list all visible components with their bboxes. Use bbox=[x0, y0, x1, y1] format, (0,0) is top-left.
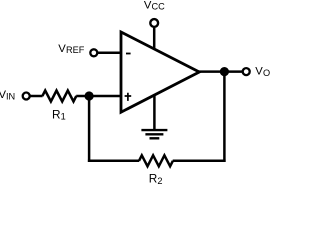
terminal VIN circle bbox=[23, 93, 30, 100]
svg-text:R: R bbox=[52, 107, 61, 121]
terminal VO circle bbox=[243, 68, 250, 75]
resistor R1 bbox=[42, 91, 76, 102]
terminal VCC circle bbox=[150, 19, 158, 27]
wire bottom right segment bbox=[173, 160, 226, 163]
svg-text:REF: REF bbox=[66, 45, 85, 55]
wire feedback right leg bbox=[223, 72, 226, 162]
resistor R2 bbox=[139, 155, 173, 166]
svg-text:CC: CC bbox=[152, 2, 166, 12]
svg-text:1: 1 bbox=[61, 112, 66, 122]
svg-text:R: R bbox=[149, 172, 158, 186]
wire output bbox=[198, 70, 243, 73]
pin + (non-inverting input marker) bbox=[125, 93, 132, 101]
svg-text:2: 2 bbox=[157, 176, 162, 186]
wire VREF to inverting input bbox=[98, 52, 121, 55]
wire VCC stub bbox=[153, 28, 156, 50]
op-amp U1 bbox=[121, 32, 199, 112]
wire R1 to non-inverting input bbox=[76, 95, 121, 98]
wire VIN to R1 bbox=[30, 95, 42, 98]
svg-text:O: O bbox=[263, 68, 270, 78]
svg-text:V: V bbox=[255, 65, 263, 77]
wire ground stub bbox=[153, 94, 156, 130]
svg-text:IN: IN bbox=[6, 91, 15, 101]
wire feedback left leg bbox=[88, 96, 91, 162]
node A junction dot bbox=[85, 91, 94, 100]
wire bottom left segment bbox=[88, 160, 139, 163]
node output junction dot bbox=[220, 67, 229, 76]
ground bbox=[141, 130, 167, 138]
pin - (inverting input marker) bbox=[126, 53, 131, 55]
terminal VREF circle bbox=[90, 49, 97, 56]
